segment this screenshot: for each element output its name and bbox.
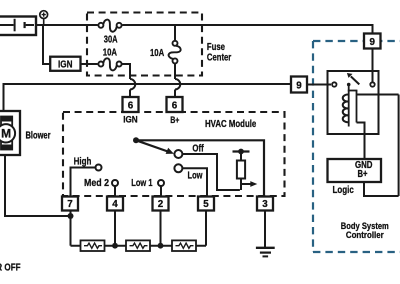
- svg-text:9: 9: [296, 81, 302, 92]
- svg-text:30A: 30A: [104, 35, 118, 46]
- contact Low: [174, 164, 203, 181]
- svg-text:B+: B+: [358, 169, 368, 180]
- blower switch common wire to pin 3: [136, 140, 264, 196]
- wire 9 connector to relay switch contact: [307, 84, 331, 86]
- svg-text:IGN: IGN: [58, 59, 73, 70]
- contact Med 2: [84, 178, 118, 189]
- fuse center box (dashed): [87, 13, 202, 76]
- svg-text:2: 2: [158, 199, 164, 210]
- svg-text:7: 7: [67, 199, 73, 210]
- blower switch arm (arrow to Off): [133, 137, 174, 154]
- label Body System Controller: [341, 221, 389, 241]
- svg-text:Controller: Controller: [346, 230, 384, 241]
- svg-text:10A: 10A: [103, 47, 118, 58]
- thermal limiter terminal (bar + dot): [233, 149, 250, 161]
- connector 6 (IGN): [123, 97, 139, 112]
- HVAC module box (dashed): [63, 112, 285, 196]
- svg-text:M: M: [1, 127, 11, 141]
- svg-text:Low: Low: [188, 170, 204, 181]
- svg-text:Off: Off: [192, 143, 204, 154]
- contact High: [74, 156, 102, 170]
- wire relay coil to logic box: [357, 123, 365, 160]
- wire 9 connector down to relay switch: [372, 49, 374, 83]
- wire battery to fuse center (top feed): [34, 24, 98, 26]
- svg-text:9: 9: [369, 37, 375, 48]
- wire relay coil to right edge loop: [357, 94, 399, 96]
- svg-text:Center: Center: [207, 53, 231, 64]
- svg-text:High: High: [74, 156, 92, 167]
- svg-text:4: 4: [112, 199, 118, 210]
- blower motor M: [0, 111, 20, 155]
- main feed wire relay to blower: [4, 84, 292, 111]
- relay coil: [343, 85, 358, 127]
- svg-text:B+: B+: [170, 115, 179, 126]
- svg-text:Med 2: Med 2: [84, 178, 109, 189]
- relay box: [328, 71, 379, 134]
- relay switch: [332, 73, 375, 87]
- pin box 4: [107, 197, 123, 211]
- fuse 10A (ignition): [98, 58, 121, 70]
- wire 30A fuse output to relay 9 connector: [122, 25, 372, 34]
- wire Off contact to resistor: [182, 154, 240, 190]
- wire right edge down: [398, 95, 400, 197]
- svg-text:Blower: Blower: [26, 130, 51, 141]
- svg-text:3: 3: [262, 199, 268, 210]
- fuse 10A (vertical, B+): [169, 25, 181, 79]
- wire blower to resistor chain: [5, 155, 71, 216]
- resistor (blower off): [237, 161, 245, 179]
- svg-text:IGN: IGN: [123, 114, 138, 125]
- svg-text:10A: 10A: [150, 48, 165, 59]
- junction blower/pin7: [68, 213, 74, 219]
- connector 9 (top): [364, 34, 381, 49]
- svg-text:Fuse: Fuse: [207, 42, 225, 53]
- svg-text:5: 5: [203, 199, 209, 210]
- pin 4 wire down: [114, 211, 116, 246]
- svg-text:Low 1: Low 1: [131, 178, 152, 189]
- body system controller box (blue dashed): [313, 41, 400, 252]
- wire Low contact to pin 5: [182, 168, 207, 196]
- svg-text:6: 6: [128, 100, 134, 111]
- svg-text:R OFF: R OFF: [0, 261, 21, 273]
- wire Low 1 contact to pin 2: [160, 186, 162, 197]
- pin box 3: [257, 197, 273, 211]
- wire vertical fuse to B+ connector (with crossover hop): [175, 79, 180, 97]
- pin 7 wire down: [70, 211, 72, 246]
- pin box 5: [198, 197, 214, 211]
- contact Off: [174, 143, 204, 158]
- arrow output: [241, 181, 257, 187]
- fuse 30A: [98, 20, 121, 32]
- resistor chain wire: [71, 245, 207, 247]
- junction R1/R2 (pin 4): [112, 243, 118, 249]
- resistor R1: [81, 240, 105, 251]
- pin 2 wire down: [160, 211, 162, 246]
- wire Med 2 contact to pin 4: [114, 186, 116, 197]
- wire High contact to pin 7: [71, 168, 96, 197]
- contact Low 1: [131, 178, 164, 189]
- pin 5 wire down: [205, 211, 207, 246]
- connector 6 (B+): [167, 97, 183, 112]
- resistor R2: [126, 240, 150, 251]
- wire ignition switch to 10A fuse: [81, 63, 98, 65]
- wire resistor bottom: [240, 179, 242, 191]
- ground: [256, 248, 275, 257]
- wire 10A fuse to IGN connector (with crossover hop): [122, 64, 136, 97]
- battery B1: [0, 17, 36, 36]
- junction R2/R3 (pin 2): [158, 243, 164, 249]
- wire right edge to logic box: [364, 182, 399, 196]
- resistor R3: [172, 240, 196, 251]
- pin box 2: [153, 197, 169, 211]
- svg-text:6: 6: [172, 100, 178, 111]
- wire battery to ignition switch: [43, 25, 50, 64]
- logic box GND B+: [328, 159, 382, 182]
- svg-text:Logic: Logic: [333, 185, 355, 196]
- svg-text:HVAC Module: HVAC Module: [205, 119, 256, 130]
- connector 9 (left): [291, 77, 307, 93]
- ignition switch IGN: [50, 57, 80, 71]
- label Fuse Center: [207, 42, 231, 64]
- pin box 7: [62, 197, 78, 211]
- pin 3 wire down to ground: [264, 211, 266, 248]
- battery positive terminal: [40, 11, 48, 25]
